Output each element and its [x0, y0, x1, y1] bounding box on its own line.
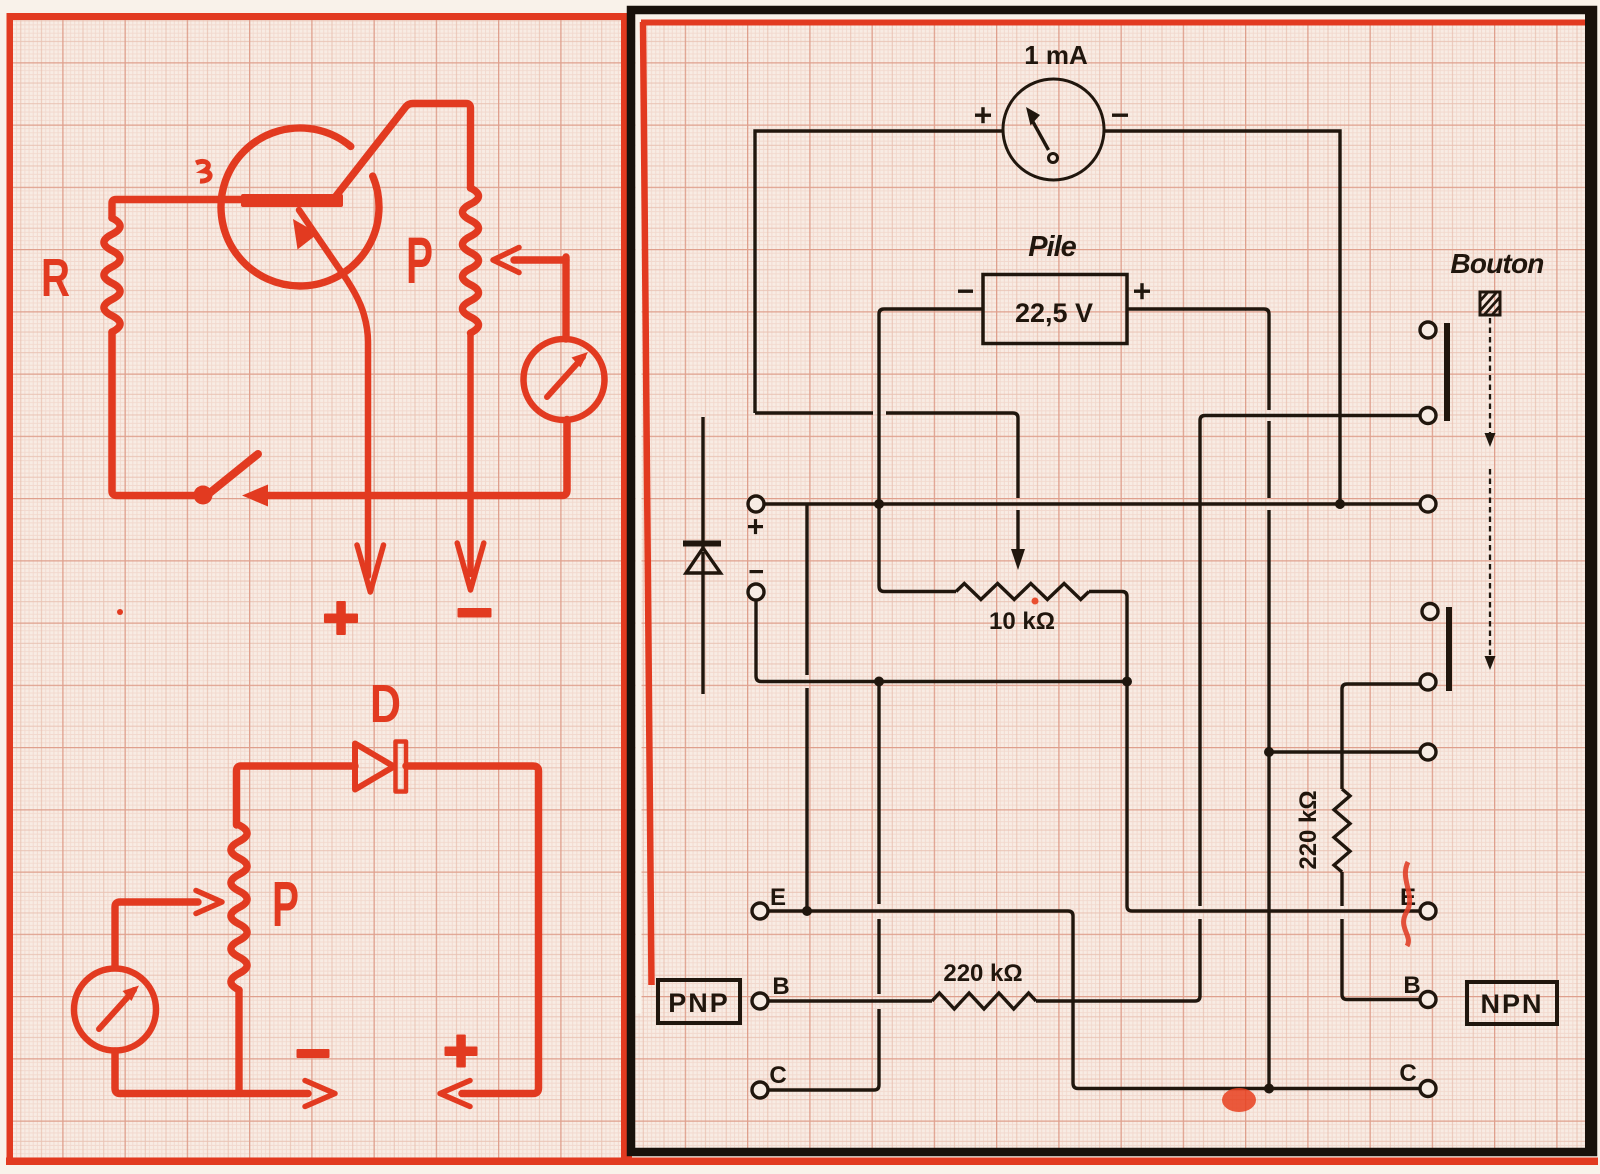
svg-text:P: P: [406, 223, 433, 297]
svg-text:PNP: PNP: [668, 988, 730, 1018]
svg-text:B: B: [772, 973, 789, 1000]
svg-text:220 kΩ: 220 kΩ: [943, 960, 1022, 987]
svg-text:Pile: Pile: [1028, 231, 1076, 263]
svg-text:NPN: NPN: [1480, 989, 1543, 1019]
svg-text:P: P: [272, 868, 299, 940]
svg-text:Bouton: Bouton: [1450, 248, 1543, 279]
svg-text:1 mA: 1 mA: [1024, 40, 1088, 70]
svg-text:220 kΩ: 220 kΩ: [1295, 790, 1322, 869]
svg-text:10 kΩ: 10 kΩ: [989, 608, 1055, 635]
svg-text:C: C: [1399, 1060, 1416, 1087]
svg-text:22,5 V: 22,5 V: [1015, 298, 1093, 328]
svg-text:R: R: [41, 248, 70, 308]
svg-text:D: D: [370, 674, 401, 734]
svg-text:C: C: [769, 1062, 786, 1089]
svg-text:B: B: [1403, 972, 1420, 999]
svg-text:E: E: [770, 884, 786, 911]
